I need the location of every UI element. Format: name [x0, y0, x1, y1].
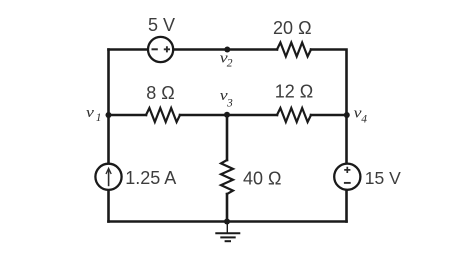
svg-text:4: 4 [361, 113, 367, 125]
svg-text:20 Ω: 20 Ω [273, 18, 311, 38]
V2 minus sign [344, 182, 351, 184]
svg-text:v: v [86, 105, 95, 120]
voltage source V2 15V circle [334, 164, 360, 190]
svg-text:40 Ω: 40 Ω [243, 168, 281, 188]
svg-text:2: 2 [227, 57, 233, 69]
wire left vertical upper (corner down to current source) [107, 50, 110, 164]
wire center vertical upper (v3 down to 40-ohm) [226, 115, 229, 160]
voltage source V1 5V circle [148, 37, 173, 62]
wire right vertical (v4 down to 15V source) [345, 115, 348, 163]
wire bottom horizontal [109, 220, 347, 223]
V1 plus sign [164, 46, 170, 52]
resistor 8-ohm zigzag [146, 108, 180, 122]
wire middle center (8-ohm to v3 to 12-ohm) [180, 114, 277, 117]
wire top-left horizontal (corner to 5V source) [109, 48, 149, 51]
node dot v3 [224, 112, 230, 118]
wire left vertical lower (current source to bottom corner) [107, 190, 110, 222]
node dot v4 [344, 112, 350, 118]
resistor 20-ohm zigzag [277, 43, 311, 57]
V1 minus sign [152, 48, 158, 50]
node dot v1 [106, 112, 112, 118]
current source I1 1.25A circle [95, 164, 121, 190]
svg-text:5 V: 5 V [148, 15, 175, 35]
svg-text:1: 1 [96, 112, 102, 124]
svg-text:12 Ω: 12 Ω [275, 82, 313, 102]
resistor 40-ohm zigzag [221, 160, 233, 194]
node dot v2 [224, 47, 230, 53]
V2 plus sign [344, 167, 350, 173]
svg-text:15 V: 15 V [365, 168, 401, 188]
wire top middle (5V source to 20-ohm resistor) [173, 48, 277, 51]
wire middle left (v1 to 8-ohm) [109, 114, 147, 117]
wire top-right (20-ohm to corner, down to v4) [311, 50, 347, 116]
wire middle right (12-ohm to v4) [311, 114, 347, 117]
svg-text:8 Ω: 8 Ω [146, 83, 174, 103]
ground symbol [215, 222, 240, 242]
I1 arrow up [108, 169, 110, 186]
svg-text:3: 3 [226, 97, 233, 109]
wire right vertical lower (15V source to bottom corner) [345, 190, 348, 222]
svg-text:1.25 A: 1.25 A [125, 168, 176, 188]
wire center vertical lower (40-ohm to bottom) [226, 194, 229, 222]
resistor 12-ohm zigzag [277, 108, 311, 122]
node dot bottom junction [224, 219, 230, 225]
